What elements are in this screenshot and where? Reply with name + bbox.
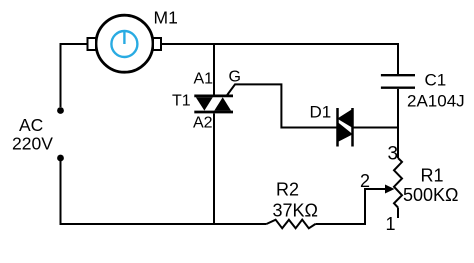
potentiometer R1 zigzag bbox=[394, 158, 402, 208]
resistor R2 zigzag bbox=[266, 220, 315, 229]
svg-text:3: 3 bbox=[388, 144, 399, 165]
svg-text:AC: AC bbox=[19, 115, 43, 135]
node: AC source top terminal dot bbox=[57, 107, 64, 114]
motor M1 right brush terminal bbox=[153, 38, 161, 50]
wire: gate wire from triac to diac D1 left bbox=[227, 84, 337, 127]
svg-text:2: 2 bbox=[360, 171, 370, 191]
wire: triac branch from top rail down to triac A1 bbox=[213, 44, 215, 95]
svg-text:D1: D1 bbox=[310, 103, 332, 122]
triac T1 bottom bar (A2) bbox=[194, 111, 233, 114]
wire: AC bottom down and along bottom rail to R2 left lead bbox=[61, 161, 267, 224]
svg-text:2A104J: 2A104J bbox=[407, 92, 465, 111]
diac D1 bottom triangle bbox=[337, 122, 353, 143]
wire: potentiometer R1 pin 1 stub bbox=[397, 208, 399, 219]
svg-text:220V: 220V bbox=[12, 134, 53, 154]
svg-text:37KΩ: 37KΩ bbox=[273, 201, 318, 221]
svg-text:C1: C1 bbox=[425, 71, 447, 90]
wire: top rail from motor right terminal to capacitor branch bbox=[161, 44, 398, 74]
diac D1 left bar bbox=[336, 108, 339, 147]
wiper arrow of potentiometer R1 bbox=[385, 185, 395, 194]
wire: diac D1 right to capacitor/pot branch bbox=[354, 127, 399, 129]
svg-text:M1: M1 bbox=[154, 8, 178, 28]
triac T1 left triangle bbox=[196, 97, 213, 110]
capacitor C1 top plate bbox=[381, 74, 415, 76]
wire: R2 right lead to bottom-right corner up to potentiometer wiper bbox=[315, 189, 385, 224]
svg-text:T1: T1 bbox=[172, 93, 191, 110]
motor M1 blue gauge icon bbox=[111, 31, 137, 57]
svg-text:G: G bbox=[229, 69, 241, 86]
svg-text:R1: R1 bbox=[421, 166, 444, 186]
wire: triac A2 down to bottom rail junction bbox=[213, 114, 215, 225]
node: AC source bottom terminal dot bbox=[57, 155, 64, 162]
triac T1 right triangle bbox=[214, 97, 231, 110]
svg-text:A2: A2 bbox=[193, 115, 213, 132]
svg-text:500KΩ: 500KΩ bbox=[403, 185, 459, 205]
capacitor C1 bottom plate bbox=[381, 86, 415, 88]
diac D1 right bar bbox=[351, 108, 354, 147]
diac D1 top triangle bbox=[337, 109, 353, 128]
motor M1 left brush terminal bbox=[88, 38, 97, 50]
wire: capacitor bottom plate down to potentiometer R1 pin 3 bbox=[397, 89, 399, 158]
motor M1 body circle bbox=[96, 15, 153, 72]
svg-text:1: 1 bbox=[386, 214, 396, 234]
wire: motor left terminal to AC source top bbox=[61, 44, 88, 107]
triac T1 top bar (A1) bbox=[194, 95, 233, 98]
svg-text:R2: R2 bbox=[276, 180, 299, 200]
svg-text:A1: A1 bbox=[194, 71, 214, 88]
